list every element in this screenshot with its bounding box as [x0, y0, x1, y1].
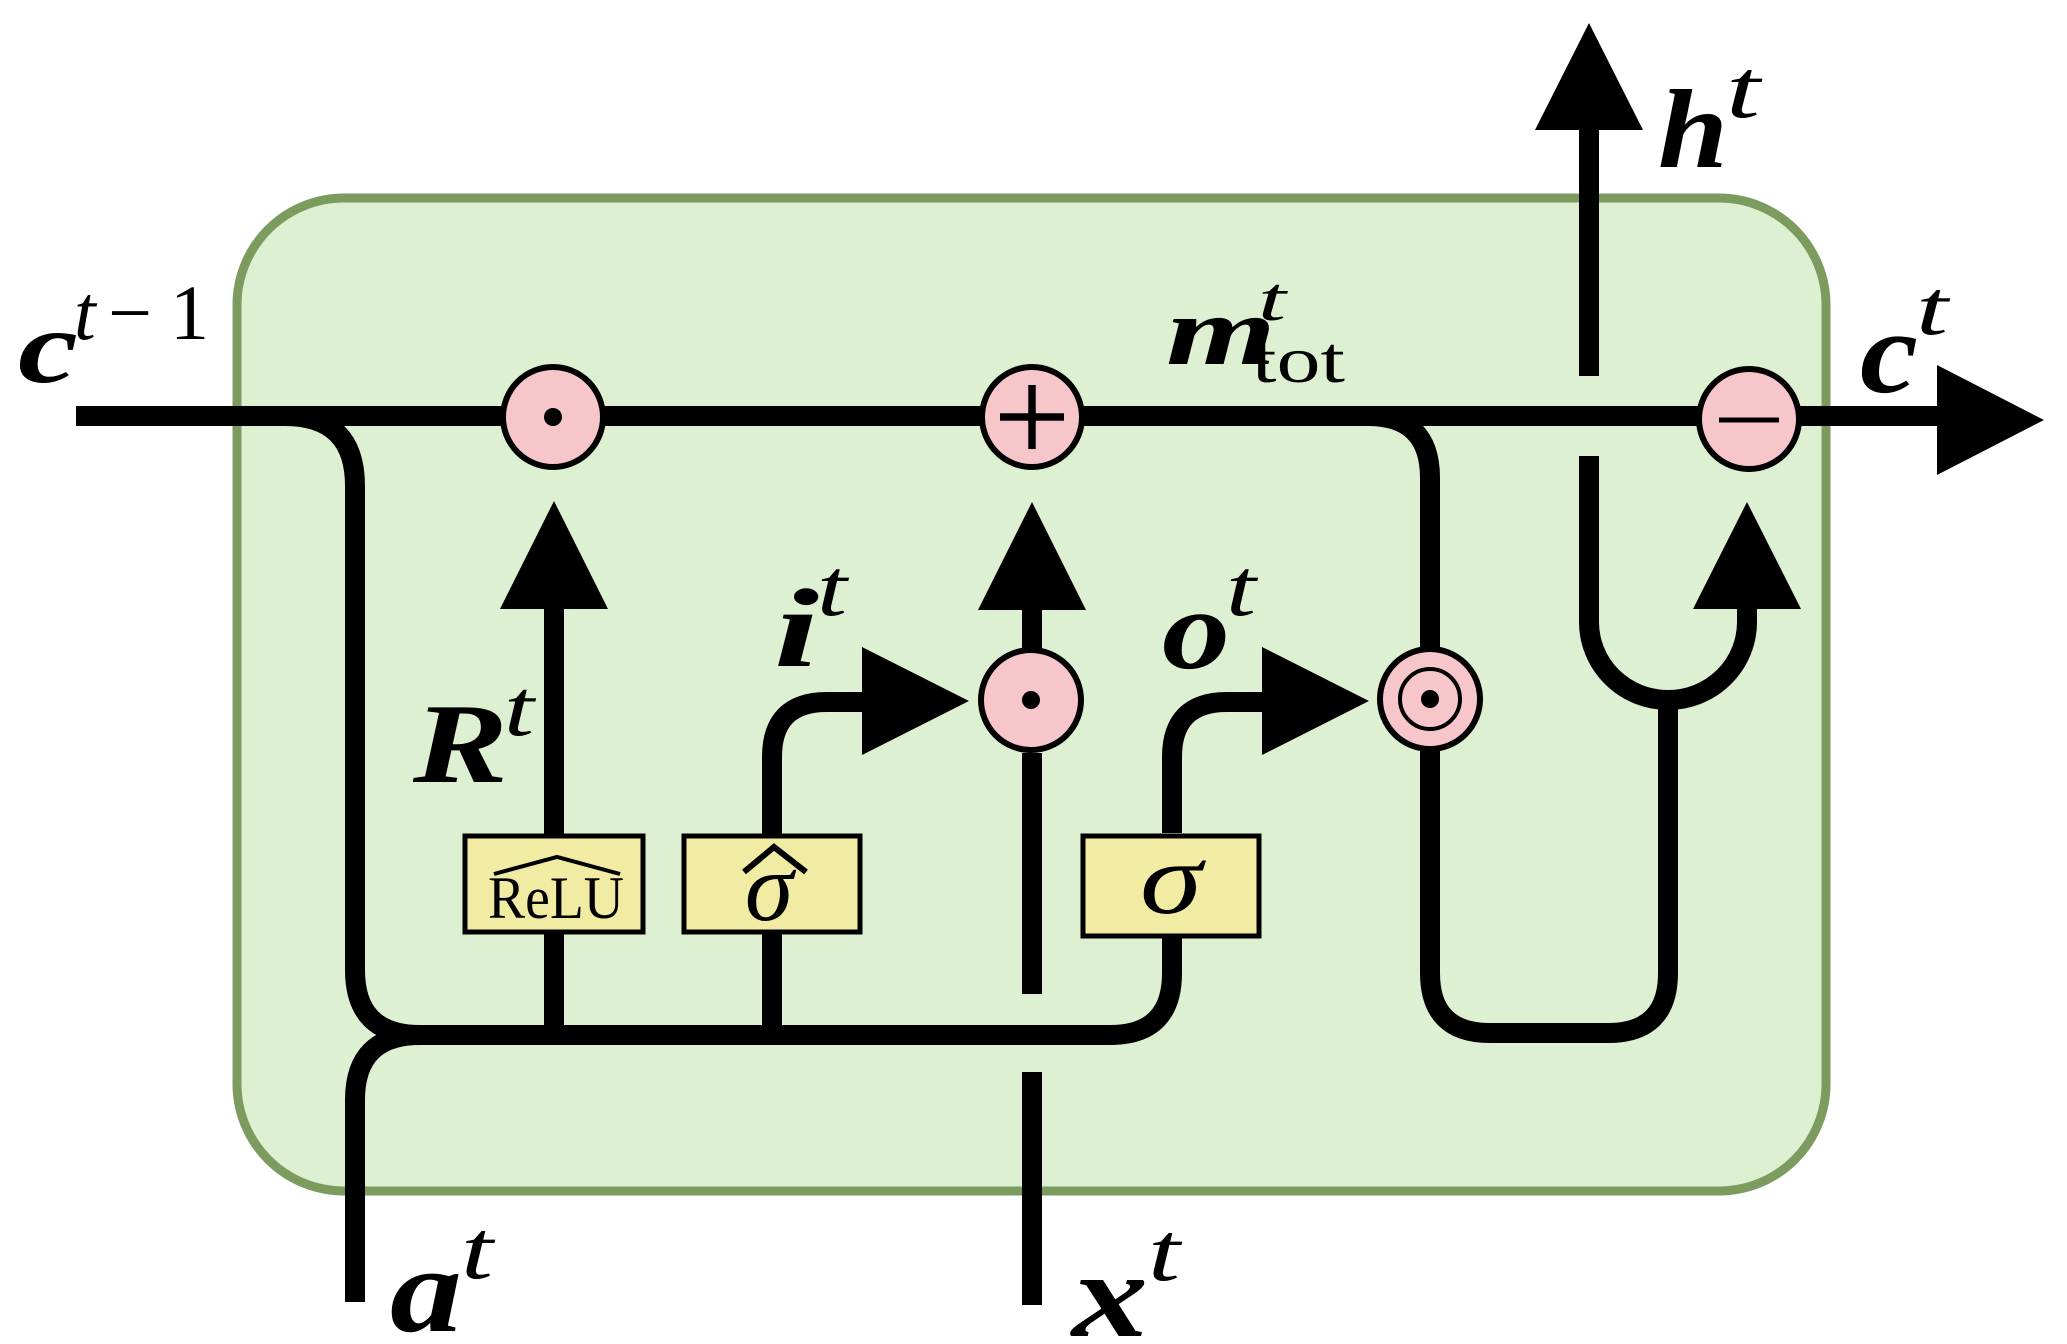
arrowhead h-t up	[1535, 23, 1643, 130]
svg-text:t: t	[1916, 264, 1951, 351]
gate box sigma	[1083, 836, 1259, 936]
svg-text:a: a	[390, 1223, 462, 1344]
arrowhead x-t up into plus	[978, 502, 1086, 610]
svg-text:t: t	[817, 542, 850, 633]
label ReLU widehat	[494, 857, 620, 874]
svg-text:σ: σ	[1140, 823, 1207, 936]
svg-text:tot: tot	[1252, 324, 1345, 397]
op circle input-gate dot	[981, 650, 1081, 750]
arrowhead R up	[500, 501, 608, 609]
svg-text:c: c	[18, 290, 78, 405]
svg-text:o: o	[1162, 566, 1230, 693]
svg-text:t: t	[504, 665, 536, 753]
op circle plus on c-line	[982, 367, 1082, 467]
dot of input-gate circle	[1022, 691, 1040, 709]
svg-text:1: 1	[170, 269, 209, 356]
svg-text:x: x	[1070, 1228, 1148, 1344]
dot of forget circle	[544, 408, 562, 426]
arrowhead up into minus circle	[1693, 502, 1801, 609]
op circle output-gate circled-dot	[1380, 649, 1480, 749]
arrowhead i-t right	[862, 647, 969, 755]
gate box ReLU	[465, 836, 643, 932]
wire a-t input vertical from bottom into bus	[355, 1035, 420, 1302]
dot of circled-dot	[1421, 690, 1439, 708]
svg-text:c: c	[1860, 287, 1918, 418]
svg-text:t: t	[461, 1204, 497, 1297]
wire x-t lower segment	[1022, 1072, 1042, 1305]
label sigma-hat hat	[744, 847, 806, 872]
arrowhead o-t right	[1262, 647, 1369, 755]
svg-text:ReLU: ReLU	[488, 865, 624, 931]
wire a-branch from c-line down to bus	[285, 416, 420, 1035]
gate box sigma-hat	[684, 836, 860, 932]
op circle forget dot on c-line	[503, 367, 603, 467]
svg-text:−: −	[108, 269, 152, 356]
wire x-t middle segment	[1022, 753, 1042, 994]
op circle minus on c-line	[1699, 369, 1799, 469]
svg-text:h: h	[1658, 68, 1728, 192]
wire bus horizontal to sigma wire	[412, 935, 1172, 1035]
arrowhead c-t right output	[1937, 365, 2044, 475]
wire c-line main horizontal	[76, 406, 1937, 426]
svg-text:t: t	[1148, 1206, 1184, 1299]
wire sigma-hat vertical and elbow right	[772, 702, 864, 1035]
minus sign	[1719, 418, 1779, 423]
wire branch from c-line down to odot circle	[1368, 416, 1430, 647]
wire U under odot	[1430, 700, 1668, 1033]
svg-text:t: t	[74, 269, 98, 356]
svg-text:R: R	[412, 680, 508, 807]
svg-text:t: t	[1226, 542, 1259, 633]
wire R vertical	[544, 609, 564, 1035]
svg-text:i: i	[774, 567, 819, 691]
cell body box	[237, 198, 1826, 1191]
wire h-t upper segment	[1579, 129, 1599, 376]
wire fork cup	[1589, 456, 1747, 700]
plus sign	[1000, 385, 1064, 449]
inner ring of circled-dot	[1400, 669, 1460, 729]
wire sigma above box elbow right	[1172, 702, 1262, 833]
svg-text:t: t	[1726, 43, 1764, 136]
wire x-t above input-gate circle	[1022, 609, 1042, 648]
